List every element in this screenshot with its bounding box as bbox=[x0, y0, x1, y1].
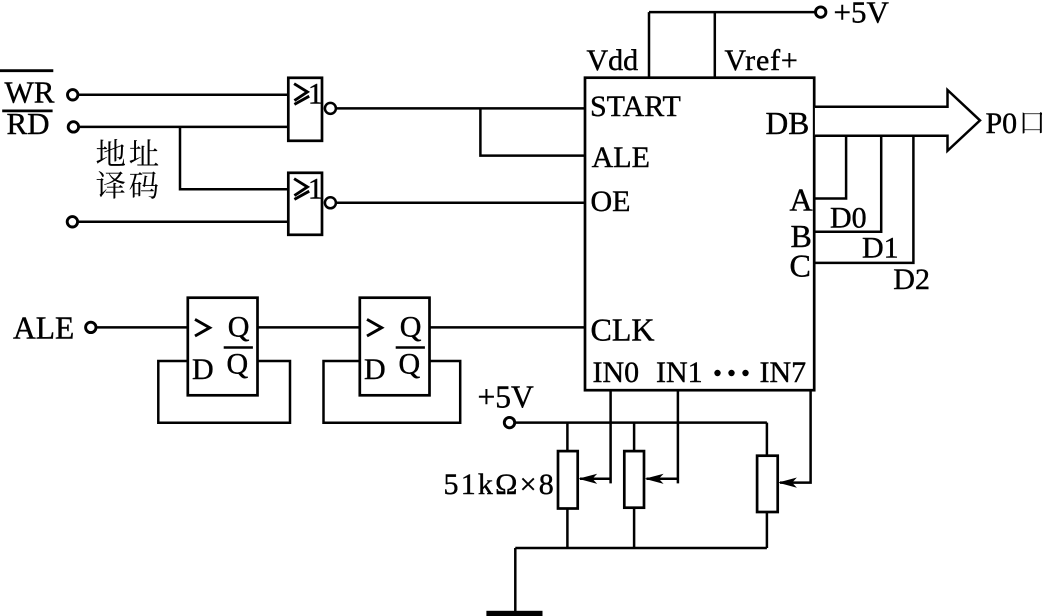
wire +5V top rail bbox=[649, 11, 815, 14]
svg-text:Vref+: Vref+ bbox=[725, 44, 799, 77]
svg-text:OE: OE bbox=[591, 185, 631, 218]
wire IN7 pin to R3 wiper bbox=[780, 390, 811, 482]
G1 symbol >=1 bbox=[294, 78, 323, 111]
wire decode terminal to G2 input bbox=[78, 221, 288, 224]
wire +5V bottom rail bbox=[515, 421, 767, 424]
svg-text:+5V: +5V bbox=[834, 0, 890, 30]
terminal WR input bbox=[68, 90, 78, 100]
wire bottom common rail bbox=[515, 547, 767, 550]
svg-text:Vdd: Vdd bbox=[587, 44, 639, 77]
svg-text:+5V: +5V bbox=[478, 380, 535, 415]
svg-text:C: C bbox=[790, 248, 811, 284]
net label RD (active-low) bbox=[2, 106, 52, 141]
terminal +5V bottom bbox=[504, 417, 514, 427]
label 口 (port) bbox=[1023, 112, 1042, 133]
svg-text:D: D bbox=[364, 353, 386, 386]
terminal RD input bbox=[68, 122, 78, 132]
svg-text:Q: Q bbox=[400, 310, 422, 343]
svg-text:D2: D2 bbox=[893, 263, 930, 296]
terminal address-decode input bbox=[67, 217, 77, 227]
terminal ALE input bbox=[86, 322, 96, 332]
terminal +5V top bbox=[816, 7, 826, 17]
svg-text:51kΩ×8: 51kΩ×8 bbox=[444, 468, 556, 501]
FF2 pin Qbar (overline) bbox=[396, 348, 425, 381]
label 址 (address decode) bbox=[130, 139, 159, 165]
wire START net jog to ALE pin bbox=[480, 108, 585, 155]
wire FF1 Q to FF2 clock bbox=[258, 326, 360, 329]
wire ALE terminal to FF1 clock bbox=[96, 326, 187, 329]
wire Vdd pin to +5V rail bbox=[648, 12, 651, 78]
svg-text:DB: DB bbox=[766, 106, 810, 141]
arrowhead IN7 wiper bbox=[778, 478, 797, 488]
svg-text:Q: Q bbox=[228, 310, 250, 343]
D flip-flop FF2 body bbox=[360, 298, 430, 396]
wire WR to G1 input bbox=[78, 94, 288, 97]
wire rail to ground bbox=[514, 548, 517, 611]
arrowhead IN1 wiper bbox=[645, 474, 664, 484]
svg-text:IN1: IN1 bbox=[656, 356, 703, 389]
wire pin A to bus (D0) bbox=[815, 136, 846, 199]
resistor R2 (51k) bbox=[624, 423, 644, 548]
or-gate G2 (>=1, inverted output) body bbox=[288, 173, 322, 235]
wire pin C to bus (D2) bbox=[815, 136, 914, 263]
svg-text:ALE: ALE bbox=[592, 141, 650, 174]
bus arrow DB to P0 port bbox=[815, 90, 980, 151]
or-gate G1 (>=1, inverted output) body bbox=[288, 78, 322, 141]
label 码 (address decode) bbox=[130, 171, 159, 198]
ellipsis dots IN2..IN6 bbox=[714, 370, 748, 376]
wire IN1 pin to R2 wiper bbox=[647, 390, 678, 483]
wire G2 output to OE pin bbox=[336, 202, 585, 205]
svg-text:1: 1 bbox=[308, 78, 323, 111]
label 地 (address decode) bbox=[97, 139, 125, 166]
svg-text:D1: D1 bbox=[862, 232, 899, 265]
ground symbol bbox=[486, 611, 542, 616]
resistor R3 (51k) bbox=[757, 423, 778, 548]
wire Vref+ pin to +5V rail bbox=[714, 12, 717, 78]
G2 symbol >=1 bbox=[294, 173, 323, 206]
svg-text:RD: RD bbox=[7, 106, 50, 141]
ADC IC U1 body bbox=[585, 78, 814, 391]
wire RD branch to G2 input (junction at x=180) bbox=[180, 127, 288, 189]
FF2 clock chevron bbox=[367, 319, 382, 336]
svg-text:1: 1 bbox=[308, 173, 323, 206]
svg-text:A: A bbox=[790, 182, 813, 218]
svg-text:Q: Q bbox=[227, 348, 249, 381]
D flip-flop FF1 body bbox=[188, 298, 258, 396]
net label WR (active-low) bbox=[0, 71, 55, 110]
svg-text:P0: P0 bbox=[986, 107, 1018, 140]
wire FF1 Qbar feedback to D bbox=[158, 361, 290, 423]
svg-text:ALE: ALE bbox=[13, 311, 74, 346]
svg-text:D0: D0 bbox=[830, 202, 867, 235]
wire RD to G1 input bbox=[79, 126, 288, 129]
wire FF2 Qbar feedback to D bbox=[324, 361, 461, 423]
label 译 (address decode) bbox=[97, 171, 126, 199]
svg-text:IN0: IN0 bbox=[593, 356, 640, 389]
FF1 clock chevron bbox=[195, 319, 210, 336]
svg-text:IN7: IN7 bbox=[760, 356, 807, 389]
wire pin B to bus (D1) bbox=[815, 136, 881, 232]
svg-text:CLK: CLK bbox=[591, 312, 655, 348]
G2 output inversion bubble bbox=[325, 197, 336, 208]
resistor R1 (51k) bbox=[558, 423, 578, 548]
FF1 pin Qbar (overline) bbox=[224, 348, 253, 381]
svg-text:Q: Q bbox=[399, 348, 421, 381]
svg-text:START: START bbox=[590, 90, 681, 123]
wire FF2 Q to CLK pin bbox=[430, 326, 586, 329]
wire G1 output to START pin bbox=[336, 107, 585, 110]
svg-text:D: D bbox=[192, 353, 214, 386]
G1 output inversion bubble bbox=[325, 103, 336, 114]
svg-text:WR: WR bbox=[5, 75, 55, 110]
wire IN0 pin to R1 wiper bbox=[580, 390, 611, 483]
arrowhead IN0 wiper bbox=[578, 474, 597, 484]
